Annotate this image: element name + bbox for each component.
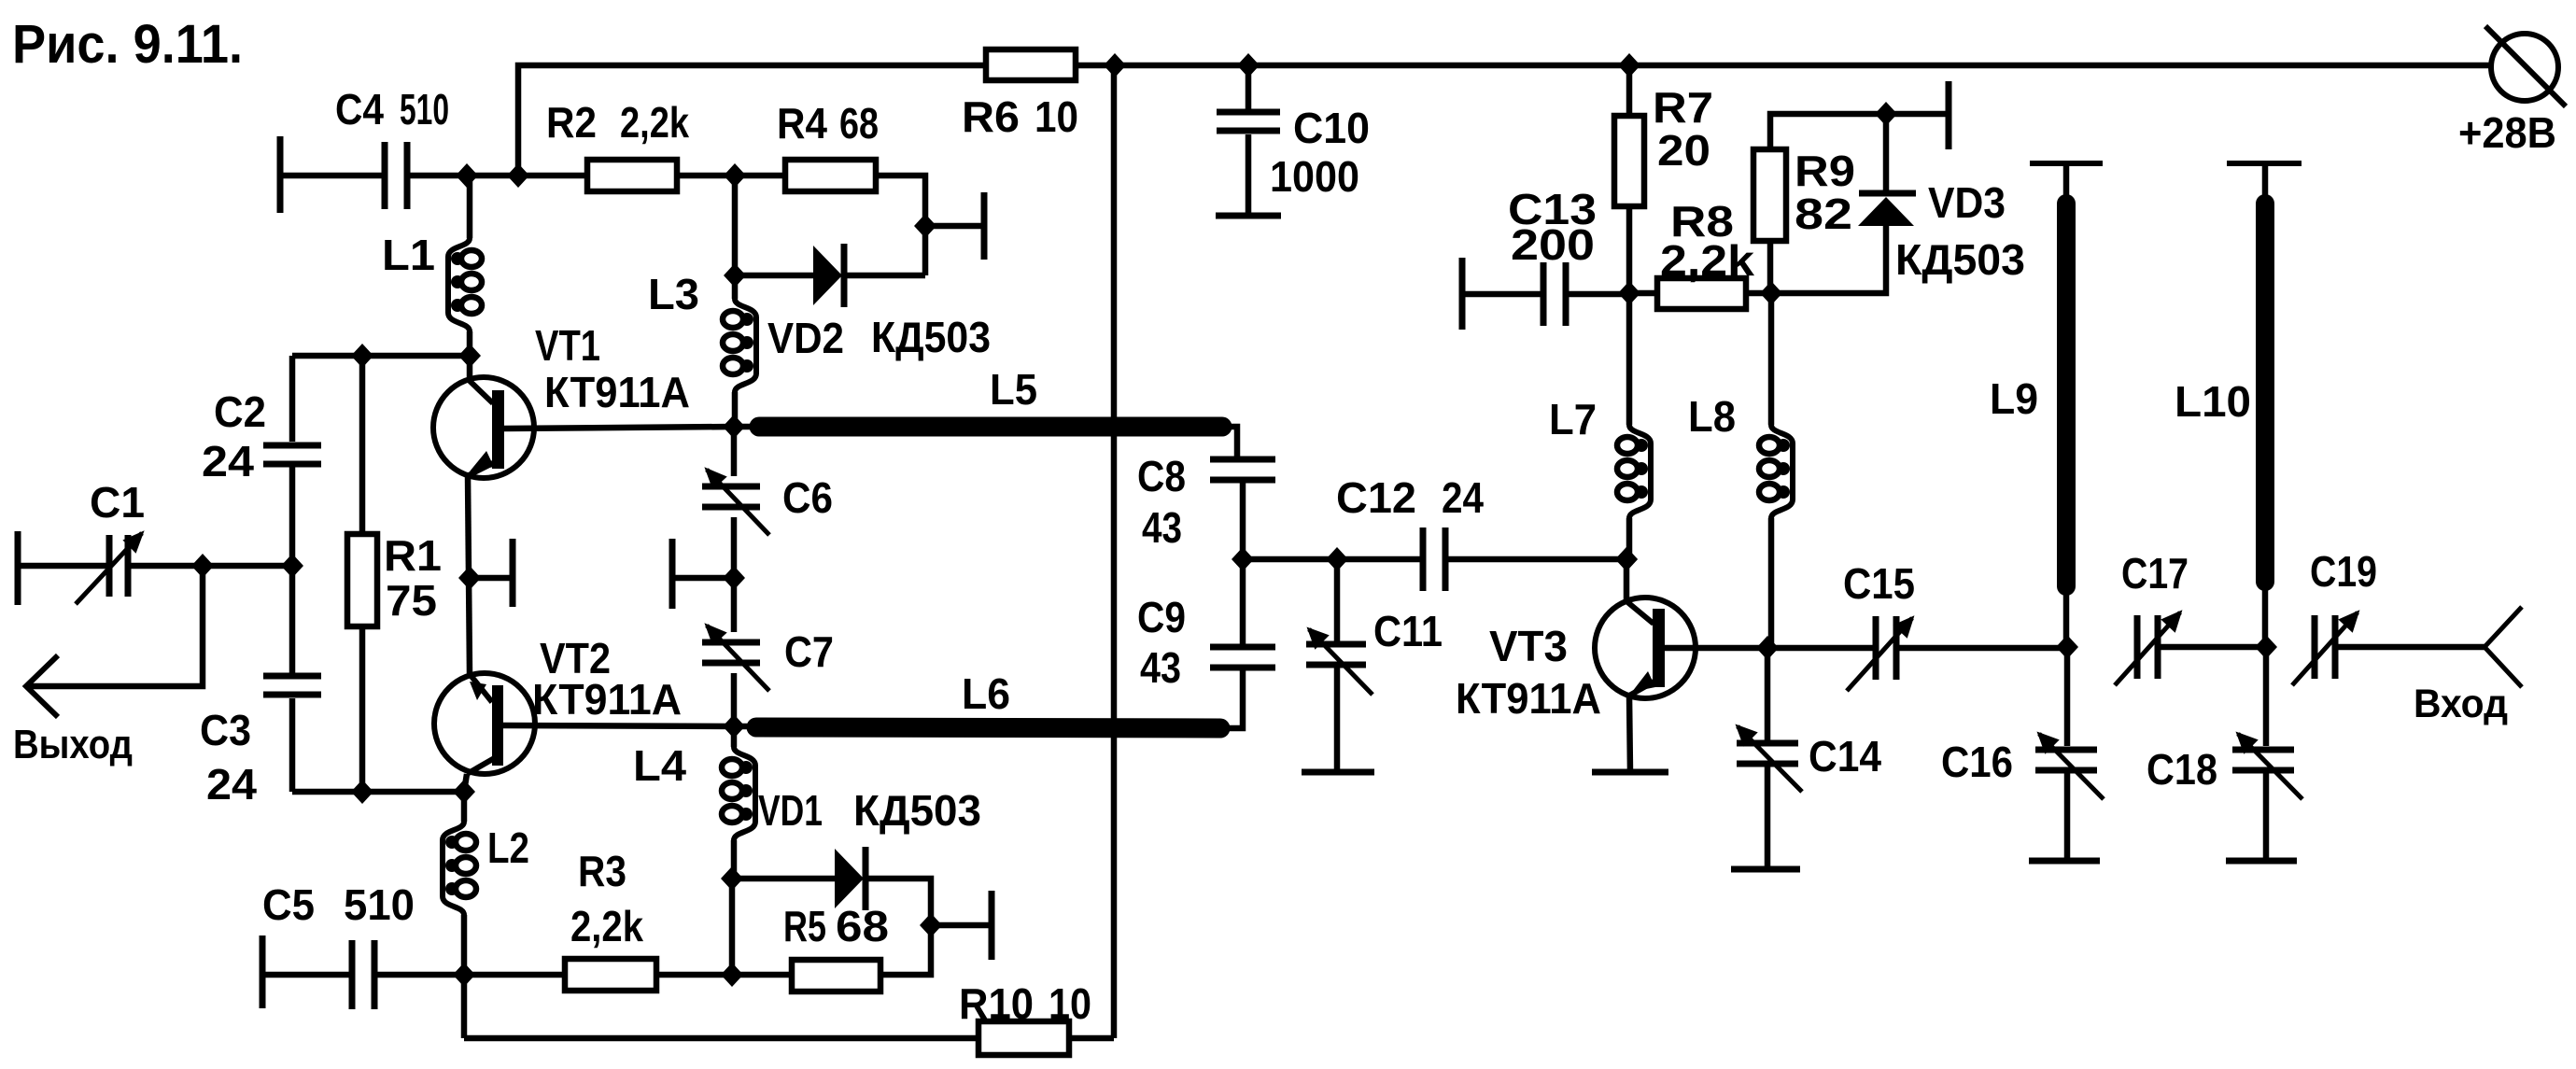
capacitor C9 <box>1240 559 1246 646</box>
resistor R1 <box>359 356 366 534</box>
wire junction down to bottom return <box>461 975 468 1038</box>
svg-text:C3: C3 <box>200 706 251 754</box>
capacitor C14 variable <box>1765 648 1771 740</box>
capacitor C4 <box>277 136 284 213</box>
node junction R3/R5 row <box>721 963 743 987</box>
capacitor C6 variable <box>731 427 738 476</box>
node junction R1 top <box>351 344 373 368</box>
wire R2 to R4 <box>677 173 785 179</box>
svg-text:C19: C19 <box>2310 547 2377 596</box>
svg-text:C8: C8 <box>1137 452 1186 500</box>
inductor L4 <box>731 726 738 747</box>
wire feedback line from rail to R10 <box>1111 65 1118 1038</box>
svg-text:VT1: VT1 <box>535 321 600 370</box>
diode VD1 <box>835 849 864 908</box>
svg-text:24: 24 <box>202 437 254 485</box>
svg-text:C18: C18 <box>2147 745 2217 794</box>
svg-text:R2: R2 <box>546 98 597 147</box>
svg-text:Выход: Выход <box>13 722 133 767</box>
node junction R7 / C13 / R8 / L7 <box>1618 281 1640 305</box>
node junction R1 bottom <box>351 780 373 804</box>
resistor R2 <box>587 160 677 191</box>
capacitor C17 variable <box>2134 615 2141 679</box>
arrow input Вход <box>2485 607 2522 687</box>
wire C2 to C1 row <box>289 467 296 678</box>
svg-text:24: 24 <box>206 760 257 809</box>
wire C15 to L9 node <box>1896 645 2067 652</box>
inductor L6 half-turn line <box>734 724 756 730</box>
wire VT1 top row y381 <box>292 353 470 359</box>
svg-text:C12: C12 <box>1336 473 1416 522</box>
svg-text:C6: C6 <box>782 473 833 522</box>
inductor L10 quarter-wave line <box>2227 161 2302 166</box>
svg-text:C5: C5 <box>262 880 315 929</box>
svg-text:510: 510 <box>344 880 415 929</box>
svg-text:68: 68 <box>839 99 879 148</box>
capacitor C7 variable <box>731 578 738 632</box>
node junction VD2 branch / bypass terminal <box>914 214 936 238</box>
node junction L1 / VT1 collector <box>458 344 481 368</box>
terminal bypass stub at VD3 top <box>1886 111 1949 118</box>
svg-text:C4: C4 <box>335 85 384 134</box>
wire VD1 cathode to branch <box>866 879 931 925</box>
wire VT2 base line <box>503 725 734 726</box>
wire VD1 branch down to R5 right end <box>880 925 931 975</box>
capacitor C11 variable <box>1334 559 1341 643</box>
node junction C8/C9/C12 wire <box>1232 547 1254 571</box>
resistor R5 <box>792 960 880 992</box>
wire VT3 base line to input chain <box>1663 645 1875 652</box>
wire L5 right end to C8 <box>1222 427 1243 459</box>
svg-text:L1: L1 <box>382 231 435 279</box>
node junction L3 top / VD2 <box>724 263 746 288</box>
svg-text:КТ911А: КТ911А <box>1456 674 1601 723</box>
wire VD2 cathode <box>844 273 925 279</box>
node junction L9 / C16 / C17 <box>2056 635 2078 659</box>
terminal +28V <box>2491 34 2558 101</box>
svg-text:R3: R3 <box>578 847 626 895</box>
transistor VT2 КТ911А <box>434 673 535 774</box>
svg-text:24: 24 <box>1442 473 1484 522</box>
node junction C1 wire / C2C3 <box>281 554 303 578</box>
capacitor C13 <box>1459 258 1466 330</box>
wire VT1 base line <box>504 427 734 429</box>
svg-text:L2: L2 <box>487 823 529 872</box>
svg-text:L6: L6 <box>962 669 1010 718</box>
arrow output Выход <box>26 655 58 717</box>
resistor R6 <box>986 49 1076 80</box>
inductor L1 <box>467 176 473 238</box>
svg-text:C16: C16 <box>1941 738 2013 786</box>
node junction C1 / output branch <box>191 554 214 578</box>
diode VD3 <box>1883 114 1890 193</box>
node junction rail/C10 <box>1237 53 1260 77</box>
wire C17 to L10 node <box>2159 644 2266 651</box>
svg-text:L7: L7 <box>1549 395 1597 443</box>
diode VD2 <box>813 246 842 305</box>
capacitor C12 <box>1420 527 1427 591</box>
capacitor C5 <box>260 935 266 1008</box>
capacitor C8 <box>1210 457 1275 463</box>
svg-text:10: 10 <box>1049 979 1091 1028</box>
svg-text:Вход: Вход <box>2414 682 2508 726</box>
svg-text:C7: C7 <box>784 627 834 676</box>
svg-text:+28В: +28В <box>2458 108 2556 157</box>
wire C12 to VT3/L7 <box>1446 556 1626 563</box>
svg-text:КД503: КД503 <box>871 313 991 361</box>
svg-text:R6: R6 <box>962 92 1020 141</box>
svg-text:43: 43 <box>1142 503 1182 552</box>
terminal bypass stub at VD1 branch <box>931 922 992 929</box>
svg-text:C17: C17 <box>2121 549 2189 598</box>
node junction VD1 branch / bypass terminal <box>920 913 942 937</box>
svg-text:VT3: VT3 <box>1489 622 1568 670</box>
node junction rail drop/R2 <box>507 163 529 188</box>
node junction rail/R7 <box>1618 53 1640 77</box>
inductor L7 <box>1626 294 1633 425</box>
terminal bypass stub between C6 and C7 <box>672 575 734 582</box>
inductor L5 half-turn line <box>734 424 759 430</box>
transistor VT3 КТ911А <box>1595 598 1696 698</box>
svg-text:L3: L3 <box>648 270 699 318</box>
capacitor C10 <box>1246 65 1252 112</box>
capacitor C1 variable <box>15 531 21 605</box>
node junction L2 / C5 / R3 / bottom return <box>453 963 475 987</box>
svg-text:R4: R4 <box>777 99 827 148</box>
node junction C4/L1 <box>456 163 478 188</box>
node junction C11 <box>1326 547 1348 571</box>
svg-text:VD2: VD2 <box>767 314 844 362</box>
wire coupling row y599 <box>1243 556 1423 563</box>
svg-text:C10: C10 <box>1293 104 1370 152</box>
wire emitter row y848 <box>292 789 464 795</box>
node junction R2/R4/L3 spine <box>724 163 746 188</box>
node junction rail/feedback <box>1104 53 1126 77</box>
svg-text:L10: L10 <box>2175 377 2251 426</box>
svg-text:68: 68 <box>836 902 889 950</box>
svg-text:L9: L9 <box>1990 374 2038 423</box>
resistor R9 <box>1753 149 1786 241</box>
svg-text:L5: L5 <box>990 365 1037 414</box>
svg-text:КТ911А: КТ911А <box>532 675 682 724</box>
inductor L2 <box>461 792 468 822</box>
node junction VT3 base / L8 / C14 <box>1756 636 1779 660</box>
wire output branch <box>28 566 203 686</box>
svg-text:КД503: КД503 <box>1895 235 2025 284</box>
resistor R4 <box>785 160 876 191</box>
node junction L10 / C18 / C19 <box>2255 635 2277 659</box>
node junction VT2 collector / L2 <box>453 780 475 804</box>
wire bottom return <box>464 1035 978 1042</box>
node junction R8 / R9 / VD3 / L8 <box>1760 281 1782 305</box>
svg-text:510: 510 <box>400 85 449 134</box>
terminal bypass stub at R4 branch <box>925 223 984 230</box>
svg-text:КТ911А: КТ911А <box>544 368 690 416</box>
resistor R8 <box>1629 290 1657 297</box>
node junction L4 / VD1 <box>721 866 743 891</box>
svg-text:VD1: VD1 <box>758 786 823 835</box>
svg-text:КД503: КД503 <box>853 786 981 835</box>
svg-text:L8: L8 <box>1688 392 1736 441</box>
svg-text:R10: R10 <box>959 979 1034 1028</box>
svg-text:10: 10 <box>1035 92 1078 141</box>
capacitor C19 variable <box>2312 615 2318 679</box>
terminal bypass stub at emitter link <box>470 575 513 582</box>
wire R10 right to feedback line <box>1069 1035 1114 1042</box>
node junction L7 / C12 / VT3 <box>1615 547 1638 571</box>
resistor R7 <box>1626 65 1633 116</box>
svg-text:2,2k: 2,2k <box>570 902 643 950</box>
node junction VT2 base / L6 / L4 <box>723 714 745 738</box>
wire VD2 anode <box>735 273 813 279</box>
capacitor C2 <box>289 356 296 442</box>
wire top rail right segment <box>1076 63 2491 69</box>
svg-text:20: 20 <box>1657 126 1710 175</box>
svg-text:C11: C11 <box>1373 607 1443 655</box>
capacitor C18 variable <box>2263 647 2270 746</box>
svg-text:VD3: VD3 <box>1928 178 2006 227</box>
svg-text:Рис. 9.11.: Рис. 9.11. <box>12 14 243 75</box>
svg-text:R1: R1 <box>384 531 442 580</box>
inductor L8 <box>1768 293 1775 425</box>
svg-text:L4: L4 <box>633 741 686 790</box>
capacitor C15 variable <box>1873 616 1879 680</box>
svg-text:C15: C15 <box>1843 559 1915 608</box>
transistor VT1 КТ911А <box>433 377 534 478</box>
svg-text:C1: C1 <box>90 478 145 527</box>
node junction C6/C7 with bypass terminal <box>723 566 745 590</box>
wire input lead <box>2335 644 2485 651</box>
node junction L7 / VT3 top <box>1615 547 1638 571</box>
svg-text:R5: R5 <box>783 902 826 950</box>
node junction VT1 base / L5 / C6 <box>723 415 745 439</box>
svg-text:R9: R9 <box>1795 147 1855 195</box>
wire R4 right to VD2 cathode branch <box>876 176 925 275</box>
resistor R10 <box>978 1021 1069 1055</box>
svg-text:R7: R7 <box>1653 83 1713 132</box>
svg-text:C2: C2 <box>214 387 266 436</box>
node junction emitter link / bypass terminal <box>458 566 481 590</box>
svg-text:200: 200 <box>1511 220 1595 269</box>
svg-text:C9: C9 <box>1137 593 1186 641</box>
wire VD1 anode <box>732 876 835 882</box>
wire R2R4 junction down to VD2 row <box>732 176 739 299</box>
svg-text:1000: 1000 <box>1270 152 1359 201</box>
wire R3 to R5 <box>656 972 792 978</box>
wire +28V top rail left segment with drop to bias row <box>518 65 986 176</box>
svg-text:75: 75 <box>386 576 437 625</box>
svg-text:2,2k: 2,2k <box>1660 236 1754 285</box>
capacitor C3 <box>263 673 321 680</box>
wire VD1 junction down to R3/R5 row <box>729 879 736 975</box>
svg-text:82: 82 <box>1795 190 1852 238</box>
resistor R3 <box>565 959 656 991</box>
svg-text:C14: C14 <box>1809 732 1881 781</box>
svg-text:2,2k: 2,2k <box>620 98 689 147</box>
svg-text:43: 43 <box>1140 643 1181 692</box>
node junction R9 / VD3 / bypass terminal <box>1875 102 1897 126</box>
inductor L9 quarter-wave line <box>2030 161 2103 166</box>
inductor L3 <box>735 299 756 392</box>
capacitor C16 variable <box>2064 647 2071 746</box>
wire VT1 emitter to VT2 emitter <box>468 475 470 674</box>
